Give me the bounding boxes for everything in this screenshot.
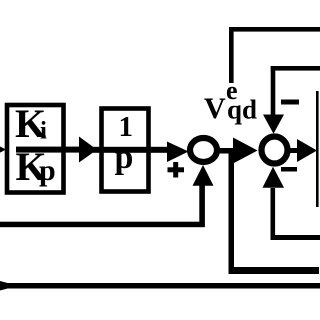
wire: feedback line into S1 from left: [0, 222, 205, 228]
wire: top feedback line: [229, 27, 320, 32]
summing junction S2: [262, 137, 288, 164]
wire: riser up into S2 bottom: [271, 188, 276, 240]
minus sign lower: [281, 167, 297, 172]
block at right edge (cut off): [316, 91, 319, 207]
minus sign upper: [281, 100, 299, 105]
wire: through line / fraction bar of block 1: [16, 147, 80, 153]
wire: drop into S2 top: [271, 66, 276, 116]
input arrow (cut at left edge): [0, 140, 6, 160]
arrowhead at left end of bottom line (cut off): [0, 281, 18, 291]
wire: lower-right horizontal run: [229, 267, 320, 274]
svg-text:i: i: [40, 118, 47, 145]
arrowhead up into S2 bottom: [263, 167, 285, 188]
wire: second feedback line from right: [271, 66, 320, 71]
arrowhead into block 1/p: [79, 137, 97, 163]
arrowhead into summing junction S1: [167, 142, 189, 163]
arrowhead into summing junction S2: [233, 138, 258, 164]
wire: branch down from node between S1 and S2: [229, 148, 235, 272]
wire: bottom feedback line from right: [271, 235, 320, 240]
arrowhead into right block: [297, 139, 317, 162]
wire: top feedback drop to label: [229, 27, 234, 83]
block PI controller Ki/Kp: [7, 105, 64, 193]
wire: through line / fraction bar of block 2: [93, 147, 170, 153]
block integrator 1/p: [102, 109, 149, 192]
wire: bottom full-width line: [0, 283, 320, 289]
wire: S2 output segment: [288, 148, 300, 153]
arrowhead down into S2 top: [263, 115, 284, 134]
svg-text:p: p: [39, 154, 56, 187]
summing junction S1: [190, 138, 217, 162]
svg-text:V: V: [204, 92, 226, 125]
wire: riser up to S1: [199, 182, 205, 227]
arrowhead up into S1 bottom: [193, 165, 214, 186]
svg-text:qd: qd: [227, 95, 257, 125]
wire: S1 output segment: [219, 148, 241, 154]
svg-text:p: p: [115, 139, 134, 176]
plus sign at S1: [168, 167, 185, 172]
